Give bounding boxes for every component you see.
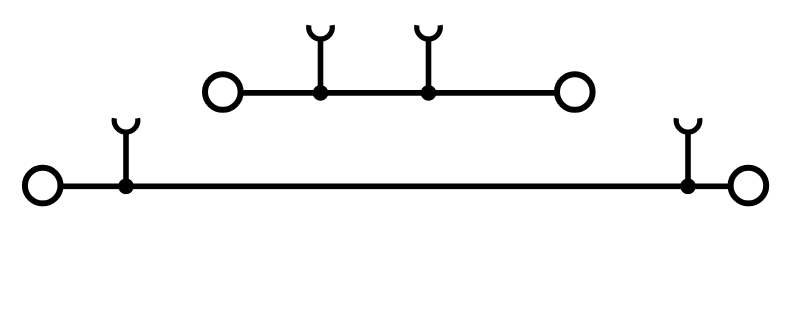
node: junction on lower rail, right tap: [680, 179, 696, 195]
test socket fork, upper-right tap: [417, 25, 441, 39]
terminal clamping point, upper-right: [557, 74, 593, 110]
node: junction on upper rail, right tap: [421, 85, 437, 101]
test socket fork, upper-left tap: [309, 25, 333, 39]
wire: lower level rail: [43, 183, 749, 189]
wire: stem of upper-right test tap: [426, 39, 432, 93]
terminal clamping point, lower-right: [731, 168, 767, 204]
wire: stem of upper-left test tap: [318, 39, 324, 93]
node: junction on lower rail, left tap: [118, 179, 134, 195]
wire: upper level rail: [223, 90, 575, 96]
terminal clamping point, lower-left: [25, 168, 61, 204]
wire: stem of lower-left test tap: [123, 132, 129, 186]
test socket fork, lower-left tap: [114, 118, 138, 132]
test socket fork, lower-right tap: [676, 118, 700, 132]
wire: stem of lower-right test tap: [685, 132, 691, 186]
node: junction on upper rail, left tap: [313, 85, 329, 101]
terminal clamping point, upper-left: [205, 74, 241, 110]
